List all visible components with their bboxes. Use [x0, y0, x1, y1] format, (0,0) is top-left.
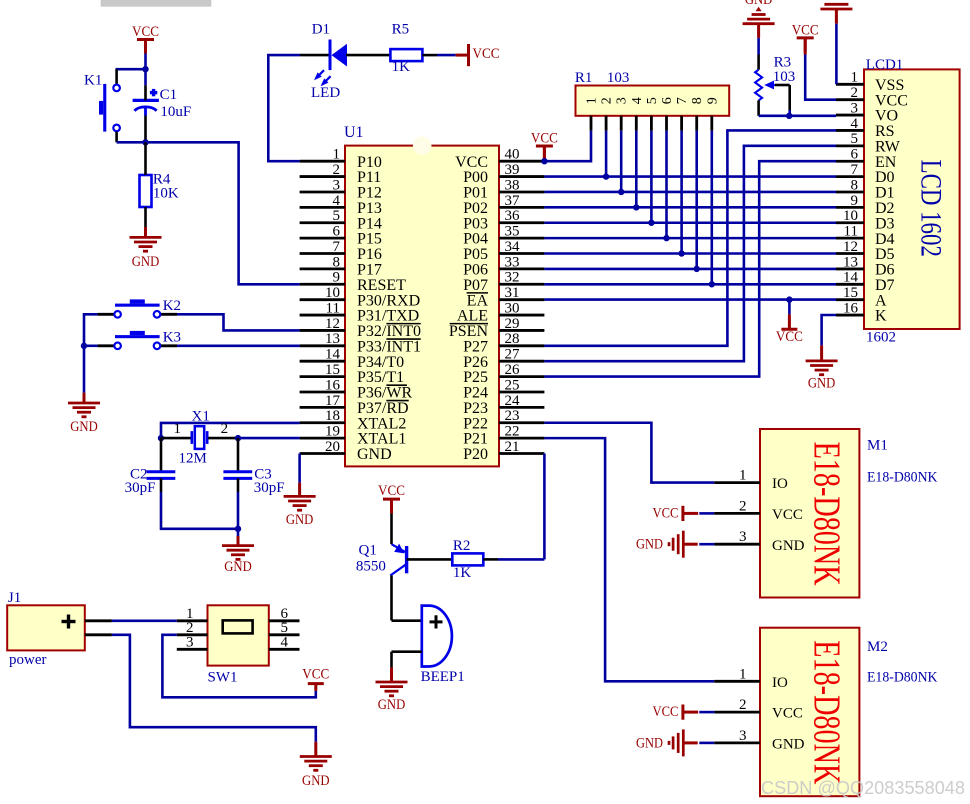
capacitor C2 [147, 438, 176, 478]
pin 5 U1 P14 [300, 208, 382, 232]
power VCC (reset circuit) [137, 38, 154, 41]
pin 3 R1 [615, 97, 630, 131]
svg-text:2: 2 [333, 162, 341, 178]
svg-text:GND: GND [286, 512, 314, 528]
ground (U1 pin20) [284, 495, 316, 498]
svg-text:K2: K2 [163, 298, 181, 314]
wire R1 pin2 to P00 [605, 131, 608, 177]
svg-text:R5: R5 [392, 22, 410, 38]
wire XTAL2 net [161, 423, 300, 438]
svg-text:37: 37 [505, 193, 521, 209]
pin 8 U1 P17 [300, 254, 382, 278]
node C3 ground junction [235, 526, 241, 532]
svg-text:31: 31 [505, 285, 520, 301]
pin 3 U1 P12 [300, 177, 382, 201]
svg-text:D1: D1 [312, 22, 330, 38]
chip M1 body [760, 429, 859, 598]
svg-text:9: 9 [851, 193, 859, 209]
pin 25 U1 P24 [463, 377, 544, 401]
pin 13 U1 P33/INT1 [300, 331, 421, 355]
wire U1 pin1 to LED net [268, 55, 300, 161]
pin 1 U1 P10 [300, 147, 382, 171]
pin 1 R1 [585, 97, 600, 131]
wire reset net to U1 pin 9 [146, 142, 300, 284]
svg-text:15: 15 [843, 285, 858, 301]
node R1-P02 junction [633, 204, 639, 210]
gray bar top [101, 0, 212, 7]
svg-text:2: 2 [739, 498, 747, 514]
svg-text:GND: GND [772, 538, 805, 554]
J1 plus mark [62, 620, 76, 623]
svg-text:1: 1 [739, 468, 747, 484]
svg-text:18: 18 [325, 408, 340, 424]
node R1-P07 junction [709, 281, 715, 287]
svg-text:GND: GND [70, 419, 98, 435]
wire P01 to LCD D1 [544, 191, 836, 194]
pin 15 U1 P35/T1 [300, 362, 405, 386]
wire R3 to LCD VO [759, 115, 836, 118]
pin 38 U1 P01 [463, 177, 544, 201]
svg-text:16: 16 [325, 377, 341, 393]
svg-text:GND: GND [357, 446, 392, 463]
wire R3 wiper down [788, 110, 791, 116]
wire P20 vertical [543, 454, 546, 560]
pin 23 U1 P22 [463, 408, 544, 432]
svg-text:6: 6 [333, 224, 341, 240]
wire K1 bottom to junction [117, 141, 146, 144]
node pin40 junction [541, 158, 547, 164]
pin 8 R1 [690, 97, 705, 131]
pin 7 R1 [675, 97, 690, 131]
wire R1 pin4 to P02 [635, 131, 638, 208]
node backlight VCC junction [786, 296, 792, 302]
svg-text:11: 11 [844, 224, 858, 240]
node R1-P01 junction [618, 189, 624, 195]
pin 2 M2 VCC [714, 697, 803, 722]
wire XTAL1 net [238, 437, 300, 440]
svg-text:power: power [9, 652, 47, 668]
wire R4 to ground [144, 207, 147, 227]
svg-text:R2: R2 [453, 538, 471, 554]
wire SW1 pin2 to VCC [162, 635, 315, 698]
svg-text:8550: 8550 [356, 559, 386, 575]
svg-text:IO: IO [772, 476, 788, 492]
wire BEEP1 to ground [390, 652, 393, 668]
switch K1 [99, 69, 120, 142]
svg-text:3: 3 [186, 635, 194, 651]
svg-text:12: 12 [325, 316, 340, 332]
pin 3 M2 GND [714, 728, 804, 753]
pin 3 SW1 [177, 635, 208, 651]
svg-text:VCC: VCC [653, 505, 679, 521]
svg-text:M1: M1 [867, 438, 888, 454]
svg-text:28: 28 [505, 331, 520, 347]
svg-text:P20: P20 [463, 446, 488, 463]
svg-text:VCC: VCC [772, 507, 803, 523]
pin 10 U1 P30/RXD [300, 285, 421, 309]
wire J1 pin2 to ground [112, 635, 316, 742]
wire K1 top branch [116, 68, 146, 71]
svg-text:CSDN @QQ2083558048: CSDN @QQ2083558048 [761, 777, 965, 798]
svg-text:39: 39 [505, 162, 520, 178]
svg-text:2: 2 [221, 421, 229, 437]
wire junction to R4 [144, 142, 147, 175]
svg-text:VCC: VCC [302, 667, 329, 683]
svg-text:2: 2 [600, 97, 615, 104]
svg-text:6: 6 [851, 147, 859, 163]
pin 37 U1 P02 [463, 193, 544, 217]
svg-text:34: 34 [505, 239, 521, 255]
resistor R4 [140, 175, 152, 207]
svg-text:10: 10 [843, 208, 858, 224]
wire U1 pin20 GND [298, 454, 301, 483]
power VCC (M2) [653, 704, 699, 720]
wire K2 left to ground rail [84, 314, 98, 392]
svg-text:J1: J1 [8, 590, 21, 606]
pin 29 U1 PSEN [449, 316, 545, 340]
svg-text:24: 24 [505, 393, 521, 409]
node R1-P03 junction [648, 220, 654, 226]
svg-text:VCC: VCC [473, 46, 500, 62]
pin 1 LCD1 VSS [836, 70, 904, 94]
svg-text:1: 1 [585, 97, 600, 104]
pin 6 U1 P15 [300, 224, 382, 248]
pin 12 LCD1 D5 [836, 239, 895, 263]
svg-text:14: 14 [843, 270, 859, 286]
svg-text:4: 4 [281, 635, 289, 651]
svg-text:VCC: VCC [776, 329, 803, 345]
connector J1 body [7, 605, 85, 650]
wire P00 to LCD D0 [544, 175, 836, 178]
wire VCC to LCD pin2 [805, 55, 836, 100]
svg-text:5: 5 [851, 131, 859, 147]
svg-text:M2: M2 [867, 639, 888, 655]
svg-text:3: 3 [333, 177, 341, 193]
svg-text:GND: GND [636, 537, 663, 553]
svg-text:29: 29 [505, 316, 520, 332]
wire K3 left [84, 344, 98, 347]
wire EA to LCD A (backlight) [544, 298, 836, 301]
svg-text:3: 3 [739, 529, 747, 545]
node reset junction [142, 139, 148, 145]
pin 19 U1 XTAL1 [300, 424, 407, 448]
svg-text:GND: GND [745, 0, 773, 8]
svg-text:LCD 1602: LCD 1602 [915, 160, 948, 257]
svg-text:22: 22 [505, 424, 520, 440]
wire VCC to R1 pin1 [544, 131, 591, 161]
svg-text:GND: GND [224, 559, 252, 575]
pin 2 R1 [600, 97, 615, 131]
svg-text:IO: IO [772, 675, 788, 691]
pin 24 U1 P23 [463, 393, 544, 417]
node reset-top junction [142, 66, 148, 72]
pin 2 SW1 [177, 620, 208, 636]
buzzer BEEP1 [392, 606, 452, 667]
svg-text:8: 8 [690, 97, 705, 104]
pin 3 M1 GND [714, 529, 804, 554]
svg-text:16: 16 [843, 300, 859, 316]
resistor R2 [452, 553, 483, 565]
wire K3 to U1 pin13 [177, 344, 300, 347]
pin 4 SW1 [269, 635, 300, 651]
svg-text:SW1: SW1 [208, 670, 238, 686]
svg-text:1K: 1K [453, 565, 472, 581]
svg-text:103: 103 [773, 69, 796, 85]
pin 4 U1 P13 [300, 193, 382, 217]
svg-text:E18-D80NK: E18-D80NK [867, 670, 938, 686]
svg-text:103: 103 [607, 70, 630, 86]
wire R1 pin7 to P05 [680, 131, 683, 254]
svg-text:5: 5 [333, 208, 341, 224]
svg-text:1K: 1K [392, 59, 411, 75]
ground (LCD VSS, inverted) [820, 4, 852, 23]
power VCC (LED) [467, 44, 470, 66]
svg-text:3: 3 [851, 100, 859, 116]
svg-text:VCC: VCC [132, 24, 159, 40]
node VO junction [786, 113, 792, 119]
wire R2 to P20 net [483, 558, 498, 561]
wire P26 to LCD RW [544, 146, 836, 361]
svg-text:30: 30 [505, 300, 520, 316]
LED light arrows [314, 70, 331, 86]
ground (R3 top, inverted) [743, 22, 775, 25]
power VCC (M1) [653, 505, 699, 521]
pin 16 LCD1 K [836, 300, 887, 324]
pin 6 LCD1 EN [836, 147, 897, 171]
pin 5 LCD1 RW [836, 131, 901, 155]
pin 9 U1 RESET [300, 270, 407, 294]
pin 1 SW1 [177, 606, 208, 622]
svg-text:7: 7 [675, 97, 690, 104]
capacitor C3 [223, 438, 252, 478]
svg-text:VCC: VCC [772, 706, 803, 722]
svg-text:21: 21 [505, 439, 520, 455]
node K3 junction [81, 343, 87, 349]
power VCC (LCD) [797, 36, 814, 39]
node crystal right [235, 435, 241, 441]
wire K2 to U1 pin12 [177, 314, 300, 330]
wire R1 pin9 to P07 [710, 131, 713, 284]
diode D1 (LED) [300, 40, 390, 71]
svg-text:3: 3 [739, 728, 747, 744]
svg-text:VCC: VCC [792, 23, 819, 39]
pin 4 R1 [630, 97, 645, 131]
ground (reset circuit) [130, 236, 162, 239]
svg-text:K1: K1 [84, 73, 102, 89]
wire C2 C3 bottoms to ground [160, 478, 163, 492]
svg-text:3: 3 [615, 97, 630, 104]
svg-text:GND: GND [302, 773, 330, 789]
svg-text:1: 1 [851, 70, 859, 86]
svg-text:GND: GND [772, 737, 805, 753]
svg-text:8: 8 [333, 254, 341, 270]
pin 6 SW1 [269, 606, 300, 622]
transistor Q1 8550 [390, 514, 452, 621]
wire P03 to LCD D3 [544, 221, 836, 224]
wire R1 pin8 to P06 [695, 131, 698, 269]
pin 7 U1 P16 [300, 239, 382, 263]
svg-text:2: 2 [851, 85, 859, 101]
svg-text:C1: C1 [160, 87, 178, 103]
wire C1 to junction [144, 107, 147, 116]
svg-text:Q1: Q1 [359, 543, 377, 559]
svg-text:19: 19 [325, 424, 340, 440]
pin 5 R1 [645, 97, 660, 131]
svg-text:GND: GND [808, 376, 836, 392]
pin 14 LCD1 D7 [836, 270, 895, 294]
svg-text:1602: 1602 [866, 330, 896, 346]
svg-text:4: 4 [851, 116, 859, 132]
svg-text:X1: X1 [192, 408, 210, 424]
wire R1 pin3 to P01 [620, 131, 623, 192]
svg-text:GND: GND [132, 254, 160, 270]
power VCC (U1 pin40) [536, 145, 553, 148]
svg-text:32: 32 [505, 270, 520, 286]
svg-text:14: 14 [325, 347, 341, 363]
pin 9 R1 [705, 97, 720, 131]
pin 10 LCD1 D3 [836, 208, 895, 232]
pin 3 LCD1 VO [836, 100, 898, 124]
power VCC (LCD backlight) [788, 300, 791, 315]
svg-text:4: 4 [630, 97, 645, 104]
chip M2 body [760, 628, 859, 797]
node R1-P05 junction [678, 250, 684, 256]
pin 28 U1 P27 [463, 331, 544, 355]
svg-text:VCC: VCC [531, 131, 558, 147]
power VCC (Q1) [383, 498, 400, 501]
svg-text:11: 11 [326, 300, 340, 316]
svg-text:E18-D80NK: E18-D80NK [805, 442, 847, 586]
pin 26 U1 P25 [463, 362, 544, 386]
svg-text:12M: 12M [179, 451, 207, 467]
svg-text:GND: GND [636, 735, 663, 751]
pin 8 LCD1 D1 [836, 177, 895, 201]
svg-text:VCC: VCC [378, 483, 405, 499]
pin 33 U1 P06 [463, 254, 544, 278]
svg-text:8: 8 [851, 177, 859, 193]
pin 16 U1 P36/WR [300, 377, 413, 401]
pin 4 LCD1 RS [836, 116, 895, 140]
pin 31 U1 EA [467, 285, 545, 309]
svg-text:36: 36 [505, 208, 521, 224]
resistor R5 [390, 49, 422, 61]
wire P27 to LCD RS [544, 130, 836, 345]
pin 32 U1 P07 [463, 270, 544, 294]
switch K2 [98, 299, 177, 317]
node R1-P00 junction [603, 173, 609, 179]
svg-text:K: K [875, 308, 887, 325]
wire R5 to VCC [422, 54, 437, 57]
svg-text:15: 15 [325, 362, 340, 378]
svg-text:9: 9 [705, 97, 720, 104]
svg-text:30pF: 30pF [125, 480, 156, 496]
pin 1 M1 IO [714, 468, 788, 493]
wire J1 to SW1 pin1 [112, 619, 177, 622]
wire P06 to LCD D6 [544, 268, 836, 271]
svg-text:2: 2 [739, 697, 747, 713]
svg-text:30pF: 30pF [254, 480, 285, 496]
pin 11 LCD1 D4 [836, 224, 895, 248]
pin 35 U1 P04 [463, 224, 544, 248]
pin 21 U1 P20 [463, 439, 544, 463]
wire LCD K to ground [822, 315, 836, 345]
svg-text:5: 5 [645, 97, 660, 104]
wire VCC to C1 [144, 69, 147, 85]
svg-text:E18-D80NK: E18-D80NK [805, 640, 847, 784]
svg-text:12: 12 [843, 239, 858, 255]
capacitor C1 [133, 89, 159, 111]
svg-text:10uF: 10uF [160, 104, 191, 120]
svg-text:40: 40 [505, 147, 520, 163]
wire VSS down [835, 24, 838, 85]
mcu U1 body [345, 146, 499, 467]
svg-text:7: 7 [333, 239, 341, 255]
pin 7 LCD1 D0 [836, 162, 895, 186]
wire P25 to LCD EN [544, 161, 836, 376]
pin 36 U1 P03 [463, 208, 544, 232]
svg-text:K3: K3 [163, 330, 181, 346]
svg-text:E18-D80NK: E18-D80NK [867, 469, 938, 485]
svg-text:R3: R3 [774, 54, 792, 70]
svg-text:20: 20 [325, 439, 340, 455]
ground (BEEP1) [376, 681, 408, 684]
node R1-P04 junction [663, 235, 669, 241]
svg-text:1: 1 [739, 666, 747, 682]
svg-text:33: 33 [505, 254, 520, 270]
pin 22 U1 P21 [463, 424, 544, 448]
wire R1 pin5 to P03 [650, 131, 653, 223]
wire P07 to LCD D7 [544, 283, 836, 286]
wire P04 to LCD D4 [544, 237, 836, 240]
ground (K2 K3) [83, 393, 86, 403]
ground (M2) [636, 729, 698, 756]
svg-text:10K: 10K [153, 186, 179, 202]
svg-text:U1: U1 [344, 124, 364, 141]
chip LCD1 body [864, 69, 960, 329]
pin 2 U1 P11 [300, 162, 382, 186]
svg-text:38: 38 [505, 177, 520, 193]
svg-text:1: 1 [333, 147, 341, 163]
svg-text:4: 4 [333, 193, 341, 209]
svg-text:17: 17 [325, 393, 341, 409]
pin 40 U1 VCC [455, 147, 544, 171]
ground (LCD K) [806, 359, 838, 362]
pin 1 M2 IO [714, 666, 788, 691]
svg-text:9: 9 [333, 270, 341, 286]
pin 9 LCD1 D2 [836, 193, 895, 217]
node crystal left [158, 435, 164, 441]
wire P05 to LCD D5 [544, 252, 836, 255]
svg-text:BEEP1: BEEP1 [421, 669, 465, 685]
pin 34 U1 P05 [463, 239, 544, 263]
potentiometer R3 [755, 55, 790, 116]
svg-text:27: 27 [505, 347, 521, 363]
svg-text:13: 13 [325, 331, 340, 347]
wire R1 pin6 to P04 [665, 131, 668, 238]
node R1-P06 junction [694, 266, 700, 272]
svg-text:R1: R1 [575, 70, 593, 86]
pin 39 U1 P00 [463, 162, 544, 186]
svg-text:1: 1 [174, 421, 182, 437]
ground (J1) [300, 755, 332, 758]
pin 18 U1 XTAL2 [300, 408, 407, 432]
svg-text:7: 7 [851, 162, 859, 178]
pin 11 U1 P31/TXD [300, 300, 420, 324]
pin 1 J1 [85, 619, 112, 622]
svg-text:6: 6 [660, 97, 675, 104]
svg-text:LCD1: LCD1 [866, 57, 904, 73]
pin 2 J1 [85, 633, 112, 636]
